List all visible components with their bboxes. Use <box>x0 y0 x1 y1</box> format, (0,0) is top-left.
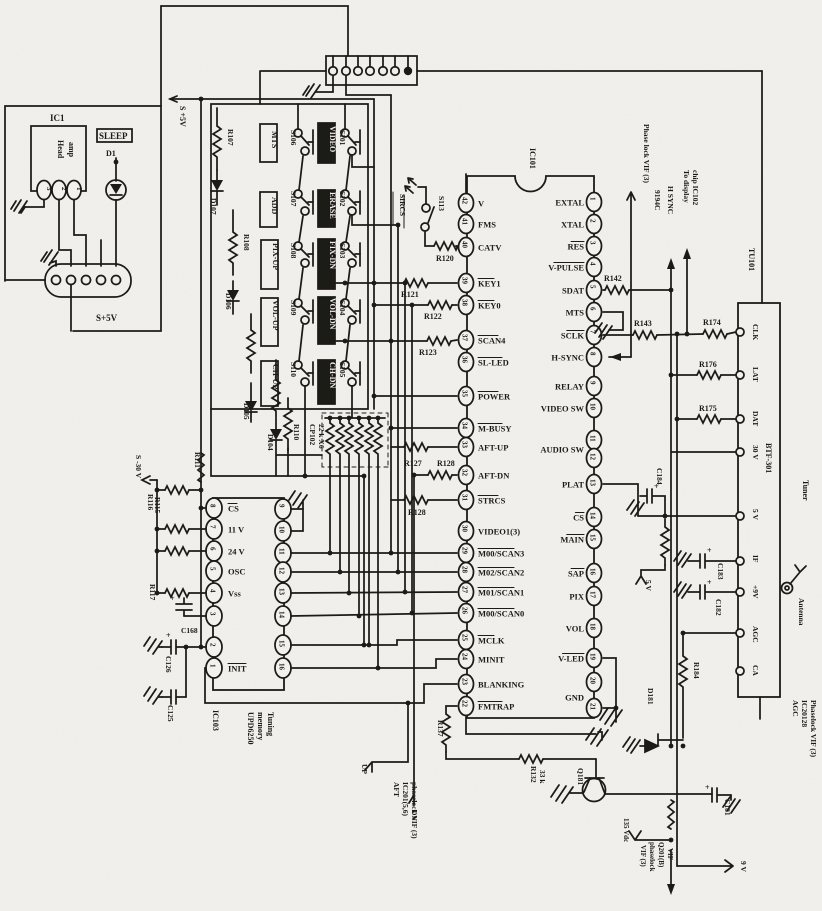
pin 15 MAIN <box>587 530 602 549</box>
wire pin2 to connector <box>59 200 71 266</box>
pin 1 <box>67 181 81 200</box>
resistor R174 <box>703 330 727 338</box>
pin 5 SDAT <box>587 281 602 300</box>
resistor R122 <box>428 301 452 309</box>
wire KEY0 row <box>374 304 428 306</box>
svg-text:36: 36 <box>461 356 469 364</box>
pin 3 RES <box>587 237 602 256</box>
wire chain left <box>299 268 303 299</box>
svg-text:UP: UP <box>360 764 369 774</box>
svg-text:C183: C183 <box>716 563 725 580</box>
wire chain right <box>346 268 350 299</box>
resistor CP102 element x349 <box>345 418 353 593</box>
svg-text:S105: S105 <box>338 362 347 378</box>
LED D1 <box>106 180 126 200</box>
label box PIX-UP <box>261 240 278 289</box>
wire Vcc top <box>465 174 467 193</box>
svg-text:Tuning: Tuning <box>266 712 275 736</box>
svg-text:4: 4 <box>209 589 217 593</box>
wire 9V arrow <box>677 860 733 872</box>
svg-text:ADD: ADD <box>270 197 279 215</box>
resistor R175 <box>677 418 697 420</box>
pin 2 XTAL <box>587 215 602 234</box>
pin 39 KEY1 <box>459 274 474 293</box>
wire V-LED loop <box>603 658 616 708</box>
svg-text:Tuner: Tuner <box>801 480 810 501</box>
connector J1 <box>45 264 131 297</box>
svg-text:KEY0: KEY0 <box>478 301 501 311</box>
wire VIF to H-SYNC vertical <box>627 192 635 357</box>
label box CH-UP <box>261 361 278 406</box>
svg-text:S107: S107 <box>289 191 298 207</box>
pin 4 Vss <box>206 583 222 603</box>
svg-text:phaselock: phaselock <box>648 842 656 872</box>
pin 2 nc <box>206 637 222 657</box>
svg-text:40: 40 <box>461 241 469 249</box>
resistor CP102 element x359 <box>355 418 363 616</box>
svg-text:CLK: CLK <box>751 324 760 340</box>
pin CA <box>736 667 744 675</box>
tuner box TU101 <box>738 303 780 697</box>
wire PLAT to 5V rail <box>603 484 638 516</box>
svg-text:29: 29 <box>461 547 469 555</box>
wire connector pin2 down <box>346 76 391 95</box>
wire UP arrow <box>365 703 408 772</box>
svg-text:memory: memory <box>256 712 265 740</box>
svg-text:37: 37 <box>461 334 469 342</box>
resistor R111 <box>198 453 204 482</box>
pin 31 STRCS <box>459 491 474 510</box>
resistor R115 <box>157 528 165 530</box>
wire LED to connector <box>115 200 117 266</box>
svg-text:14: 14 <box>589 512 597 520</box>
svg-text:27: 27 <box>461 586 469 594</box>
svg-text:13: 13 <box>278 588 286 596</box>
svg-text:C168: C168 <box>181 626 198 635</box>
resistor R143 <box>603 334 633 336</box>
svg-text:34: 34 <box>461 422 469 430</box>
ground Q181 <box>551 785 583 803</box>
resistor CP102 element x369 <box>365 418 373 645</box>
pin 35 POWER <box>459 387 474 406</box>
pin 34 M-BUSY <box>459 419 474 438</box>
svg-text:11 V: 11 V <box>228 525 245 535</box>
bottom right components <box>622 546 748 895</box>
svg-text:21: 21 <box>589 703 597 711</box>
svg-text:R184: R184 <box>692 662 701 679</box>
svg-text:IC101: IC101 <box>528 148 537 169</box>
svg-text:VOL: VOL <box>566 624 585 634</box>
resistor R109 <box>247 314 255 373</box>
svg-text:S103: S103 <box>338 243 347 259</box>
svg-text:38: 38 <box>461 299 469 307</box>
svg-text:VIDEO1(3): VIDEO1(3) <box>478 527 520 537</box>
svg-text:CA: CA <box>751 665 760 676</box>
svg-text:SLEEP: SLEEP <box>99 131 128 141</box>
keypad matrix block <box>209 104 368 476</box>
label box MTS <box>260 124 277 162</box>
pin 37 SCAN4 <box>459 331 474 350</box>
svg-text:FIX-DN: FIX-DN <box>328 241 337 269</box>
svg-text:UPD6250: UPD6250 <box>246 712 255 744</box>
diode D107 <box>216 170 218 180</box>
svg-text:15: 15 <box>278 640 286 648</box>
svg-text:VOL-UP: VOL-UP <box>271 300 280 331</box>
svg-text:Phaselock VIF (3): Phaselock VIF (3) <box>809 700 818 758</box>
resistor R128b STRCS <box>391 499 404 501</box>
svg-text:MAIN: MAIN <box>560 535 584 545</box>
switch S102 <box>341 190 349 198</box>
pin CLK <box>736 328 744 336</box>
right side of IC101 <box>595 124 736 866</box>
svg-text:7: 7 <box>209 525 217 529</box>
svg-text:AFT-UP: AFT-UP <box>478 443 508 453</box>
pin 17 PIX <box>587 587 602 606</box>
svg-text:R137: R137 <box>436 720 445 737</box>
wire M02/SCAN2 line <box>291 571 457 573</box>
wire MINIT line <box>291 659 457 668</box>
svg-text:H SYNC: H SYNC <box>666 186 675 214</box>
svg-text:TU101: TU101 <box>747 248 756 271</box>
pin 3 <box>37 181 51 200</box>
wire chain right <box>346 156 350 190</box>
svg-text:22 k X6: 22 k X6 <box>317 424 326 449</box>
svg-text:1: 1 <box>75 187 83 191</box>
bottom center: FMTRAP, Q181 <box>436 658 712 803</box>
wire chain right <box>346 216 350 242</box>
resistor network CP102 <box>308 413 388 668</box>
svg-text:R123: R123 <box>419 348 437 357</box>
svg-text:R107: R107 <box>226 129 235 146</box>
svg-text:R127: R127 <box>404 459 422 468</box>
pin 33 AFT-UP <box>459 438 474 457</box>
tuner block <box>736 248 818 758</box>
pin 32 AFT-DN <box>459 466 474 485</box>
svg-text:M-BUSY: M-BUSY <box>478 424 512 434</box>
svg-text:POWER: POWER <box>478 392 511 402</box>
resistor R114 <box>157 550 165 552</box>
svg-text:9194C: 9194C <box>653 190 662 210</box>
svg-text:ERASE: ERASE <box>328 192 337 219</box>
wire chain left <box>299 325 303 361</box>
resistor R132 <box>519 755 543 763</box>
svg-text:S109: S109 <box>289 300 298 316</box>
svg-text:LAT: LAT <box>751 367 760 382</box>
wire connector right to tuner rail <box>417 70 762 72</box>
pin 9 <box>275 499 291 519</box>
svg-text:10: 10 <box>278 526 286 534</box>
svg-text:SCAN4: SCAN4 <box>478 336 506 346</box>
svg-text:35: 35 <box>461 390 469 398</box>
switch S109 <box>294 299 302 307</box>
junction dot <box>114 160 119 165</box>
svg-text:9: 9 <box>589 381 597 385</box>
svg-text:26: 26 <box>461 607 469 615</box>
svg-text:MCLK: MCLK <box>478 636 505 646</box>
arrow up from SDAT junction <box>670 268 672 290</box>
capacitor C183 <box>688 554 736 568</box>
svg-text:C126: C126 <box>164 656 173 673</box>
wire bus x374 <box>373 99 375 409</box>
wire to Q181 <box>595 759 597 778</box>
svg-text:5 V: 5 V <box>751 509 760 520</box>
bottom rail of chains <box>211 409 364 476</box>
svg-text:S101: S101 <box>338 130 347 146</box>
svg-text:KEY1: KEY1 <box>478 279 501 289</box>
wire chain left <box>299 156 303 190</box>
arrow bottom x671 <box>670 850 672 885</box>
svg-text:24: 24 <box>461 653 469 661</box>
resistor R107 <box>213 108 221 170</box>
label box ERASE <box>318 190 335 227</box>
svg-text:IC1: IC1 <box>50 113 65 123</box>
svg-text:9: 9 <box>278 504 286 508</box>
svg-text:16: 16 <box>278 663 286 671</box>
wire 5V rail <box>638 515 736 517</box>
wire bus x414 AFT-DN to DN arrow <box>409 475 414 805</box>
wire CP102 col to rail <box>363 476 365 645</box>
matrix switches <box>260 123 337 406</box>
head amp box <box>31 126 86 191</box>
wire top rail <box>161 6 348 56</box>
resistor R142 <box>603 289 605 291</box>
capacitor C126 <box>144 637 162 654</box>
wire feed top right <box>344 104 346 129</box>
wire pin3 <box>184 615 206 617</box>
wire connector pin to bottom rail <box>70 285 72 331</box>
pin 13 PLAT <box>587 475 602 494</box>
pin 4 V-PULSE <box>587 258 602 277</box>
pin 8 CS <box>206 498 222 518</box>
svg-text:C182: C182 <box>714 599 723 616</box>
resistor CP102 element x378 <box>374 418 382 668</box>
wire long bus x677 <box>676 334 678 866</box>
svg-text:33 k: 33 k <box>538 770 547 784</box>
svg-text:S108: S108 <box>289 243 298 259</box>
pin +9V <box>736 588 744 596</box>
arrow to display chip <box>686 258 688 334</box>
pin IF <box>736 557 744 565</box>
svg-text:IF: IF <box>751 555 760 563</box>
long vertical bus wires <box>193 95 419 821</box>
resistor R110 <box>284 398 292 451</box>
svg-text:VOL-DN: VOL-DN <box>328 298 337 330</box>
svg-text:5: 5 <box>209 567 217 571</box>
S+5V rail <box>170 98 374 100</box>
svg-text:+: + <box>707 546 712 555</box>
wire pin1 to connector <box>74 200 86 266</box>
svg-text:1: 1 <box>589 197 597 201</box>
matrix switch contacts <box>289 104 398 476</box>
svg-text:AGC: AGC <box>791 700 800 717</box>
switch S113 <box>418 187 426 203</box>
wire POWER row <box>374 395 457 397</box>
wire bus x201 <box>200 99 202 648</box>
svg-text:VIF (3): VIF (3) <box>639 845 647 867</box>
svg-text:4: 4 <box>589 262 597 266</box>
svg-text:M00/SCAN0: M00/SCAN0 <box>478 609 524 619</box>
wire GND pin <box>603 707 616 709</box>
label box VOL-UP <box>261 298 278 346</box>
svg-text:R128: R128 <box>437 459 455 468</box>
matrix outer box <box>211 104 368 409</box>
svg-text:M02/SCAN2: M02/SCAN2 <box>478 568 524 578</box>
diode D104 <box>275 418 277 429</box>
label box CH-DN <box>318 360 335 404</box>
resistor R116 <box>157 489 165 491</box>
top-left block IC1 <box>5 106 161 331</box>
svg-text:Vss: Vss <box>228 589 241 599</box>
svg-text:CS: CS <box>228 504 239 514</box>
wire M00/SCAN3 line <box>205 474 457 840</box>
resistor R128 AFT-DN <box>414 474 428 476</box>
svg-text:CH-DN: CH-DN <box>328 362 337 388</box>
svg-text:MTS: MTS <box>566 308 585 318</box>
resistor R184 <box>679 633 687 738</box>
svg-text:6: 6 <box>589 307 597 311</box>
wire bus x405 <box>404 283 406 592</box>
label box VIDEO <box>318 123 335 163</box>
svg-text:8: 8 <box>589 352 597 356</box>
wire bus x398 <box>397 225 399 572</box>
pin 38 KEY0 <box>459 296 474 315</box>
pin 40 CATV <box>459 238 474 257</box>
svg-text:M01/SCAN1: M01/SCAN1 <box>478 588 524 598</box>
svg-text:R108: R108 <box>242 234 251 251</box>
wire M00/SCAN0 line <box>291 613 457 616</box>
svg-text:+9V: +9V <box>751 585 760 599</box>
svg-text:R110: R110 <box>292 424 301 441</box>
resistor R123 <box>427 337 451 345</box>
pin 3 nc <box>206 606 222 626</box>
svg-text:R122: R122 <box>424 312 442 321</box>
svg-text:D105: D105 <box>242 403 251 420</box>
pin 27 M01/SCAN1 <box>459 583 474 602</box>
svg-text:H-SYNC: H-SYNC <box>551 353 584 363</box>
svg-text:PLAT: PLAT <box>562 480 584 490</box>
pin 14 <box>275 606 291 626</box>
capacitor C125 <box>144 687 162 704</box>
svg-text:AGC: AGC <box>751 626 760 643</box>
pin 12 <box>275 562 291 582</box>
svg-text:Antenna: Antenna <box>797 598 806 626</box>
pin 23 BLANKING <box>459 675 474 694</box>
svg-text:DAT: DAT <box>751 411 760 426</box>
svg-text:SCLK: SCLK <box>561 331 585 341</box>
resistor R120 <box>434 242 458 250</box>
pin 14 CS <box>587 508 602 527</box>
svg-text:12: 12 <box>589 453 597 461</box>
svg-text:19: 19 <box>589 653 597 661</box>
pin 25 MCLK <box>459 631 474 650</box>
wire drop to matrix <box>259 71 261 104</box>
svg-text:IC103: IC103 <box>211 710 220 731</box>
pin 11 <box>275 543 291 563</box>
switch S106 <box>294 129 302 137</box>
pin 9 RELAY <box>587 377 602 396</box>
resistor CP102 element x340 <box>336 418 344 572</box>
wire C125 riser <box>185 647 187 697</box>
svg-text:28: 28 <box>461 566 469 574</box>
wire to LED <box>115 158 117 181</box>
svg-text:To display: To display <box>682 170 691 203</box>
wire SCAN4 row <box>330 340 427 342</box>
capacitor C182 <box>688 585 736 599</box>
pin 21 GND <box>587 699 602 718</box>
pin 6 MTS <box>587 303 602 322</box>
svg-text:S113: S113 <box>437 196 446 211</box>
svg-text:MTS: MTS <box>270 131 279 149</box>
capacitor C168 <box>176 598 192 616</box>
svg-text:AFT: AFT <box>392 782 401 797</box>
svg-text:D104: D104 <box>266 434 275 451</box>
svg-text:BLANKING: BLANKING <box>478 680 525 690</box>
svg-text:V: V <box>478 199 485 209</box>
svg-text:5 V: 5 V <box>644 580 653 591</box>
ground above connector <box>41 250 58 266</box>
svg-text:XTAL: XTAL <box>561 220 584 230</box>
pin 12 AUDIO SW <box>587 449 602 468</box>
svg-text:C125: C125 <box>166 705 175 722</box>
wire row2 exit <box>352 215 398 225</box>
svg-text:3: 3 <box>209 612 217 616</box>
wire connector left <box>261 70 326 72</box>
resistor to 5V <box>661 519 669 565</box>
135 Vdc arrow <box>629 831 671 840</box>
svg-text:STRCS: STRCS <box>478 496 506 506</box>
pin 15 <box>275 635 291 655</box>
resistor R176 <box>671 374 697 376</box>
pin 42 V <box>459 194 474 213</box>
svg-text:S104: S104 <box>338 300 347 316</box>
svg-text:VIF: VIF <box>666 848 674 860</box>
svg-text:41: 41 <box>461 218 469 226</box>
svg-text:2: 2 <box>589 219 597 223</box>
svg-text:Phase lock VIF (3): Phase lock VIF (3) <box>642 124 651 183</box>
ground C183 <box>674 551 691 567</box>
IC1 outer box <box>5 106 161 331</box>
pin 13 <box>275 583 291 603</box>
svg-text:42: 42 <box>461 197 469 205</box>
wire emitter to C181 <box>605 793 712 795</box>
pin 16 SAP <box>587 564 602 583</box>
svg-text:PIX-UP: PIX-UP <box>271 243 280 270</box>
pin 16 <box>275 658 291 678</box>
svg-text:CATV: CATV <box>478 243 502 253</box>
wire INIT-BLANKING line <box>205 668 457 703</box>
svg-text:135 Vdc: 135 Vdc <box>622 818 630 842</box>
svg-text:FMTRAP: FMTRAP <box>478 702 514 712</box>
switch S103 <box>341 242 349 250</box>
svg-text:20: 20 <box>589 677 597 685</box>
svg-text:5: 5 <box>589 285 597 289</box>
svg-text:GND: GND <box>565 693 584 703</box>
svg-text:31: 31 <box>461 494 469 502</box>
svg-text:11: 11 <box>278 548 286 555</box>
wire AGC row <box>683 632 736 634</box>
pin 1 EXTAL <box>587 193 602 212</box>
wire H-SYNC <box>609 356 631 358</box>
ground C184 <box>627 500 644 516</box>
switch S107 <box>294 190 302 198</box>
wire row1 exit <box>352 155 374 167</box>
pin AGC <box>736 629 744 637</box>
switch S101 <box>341 129 349 137</box>
svg-text:CH-UP: CH-UP <box>271 364 280 389</box>
junction <box>199 97 204 102</box>
coil L181 <box>668 800 674 829</box>
wire bottom right chain <box>351 386 353 418</box>
